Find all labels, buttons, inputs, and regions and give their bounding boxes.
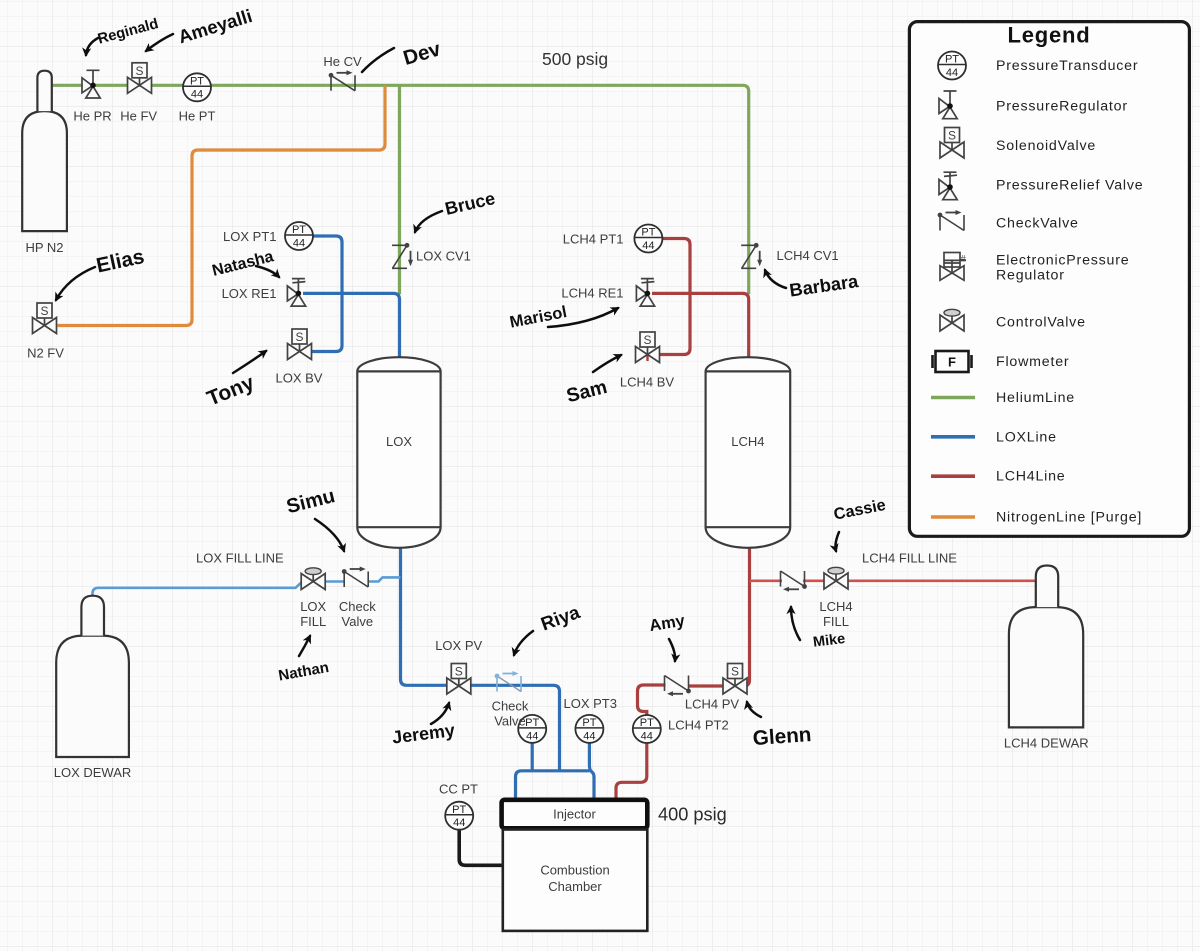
- svg-text:LOX FILL LINE: LOX FILL LINE: [196, 551, 284, 566]
- svg-text:PT: PT: [641, 227, 655, 239]
- svg-text:LCH4 RE1: LCH4 RE1: [561, 286, 623, 301]
- control valve LCH4 CV1 (vertical check): [741, 243, 762, 268]
- pressure transducer LOX PT1: [285, 222, 313, 250]
- svg-text:500 psig: 500 psig: [542, 49, 608, 69]
- svg-text:He FV: He FV: [120, 108, 157, 123]
- wire: LOX manifold horizontal with left leg into injector (blue): [516, 771, 590, 800]
- svg-text:Chamber: Chamber: [548, 879, 602, 894]
- legend nitrogen line sample: [931, 515, 975, 519]
- annotation arrow to LCH4 fill check valve: [791, 607, 800, 640]
- svg-text:LCH4Line: LCH4Line: [996, 469, 1066, 485]
- svg-text:LOX: LOX: [300, 599, 326, 614]
- annotation arrow to He PR: [86, 38, 98, 55]
- svg-text:PressureRelief Valve: PressureRelief Valve: [996, 178, 1143, 194]
- solenoid valve He FV: [128, 63, 152, 94]
- annotation arrow to He CV: [362, 48, 394, 72]
- check valve He CV: [329, 70, 355, 91]
- svg-text:ElectronicPressure: ElectronicPressure: [996, 253, 1129, 269]
- wire: LCH4 fill junction to check valve (bright red): [750, 579, 783, 582]
- svg-text:NitrogenLine [Purge]: NitrogenLine [Purge]: [996, 510, 1142, 526]
- svg-text:44: 44: [641, 730, 653, 742]
- wire: LOX PV through check valve to down corner (blue): [471, 685, 560, 771]
- legend pressure regulator symbol: [939, 91, 957, 119]
- svg-text:He CV: He CV: [323, 54, 362, 69]
- wire: LOX tank outlet down to LOX PV (blue): [401, 547, 448, 685]
- svg-text:S: S: [731, 665, 739, 679]
- svg-text:PressureTransducer: PressureTransducer: [996, 58, 1138, 74]
- annotation arrow to LOX main check valve: [514, 631, 533, 655]
- wire: LOX fill check valve to main line (light blue): [368, 577, 401, 581]
- legend LOX line sample: [931, 435, 975, 439]
- svg-text:S: S: [295, 330, 303, 344]
- svg-text:HeliumLine: HeliumLine: [996, 390, 1075, 406]
- wire: LOX RE1 line and tank inlet drop (blue): [303, 293, 400, 358]
- wire: LOX PT1 stub, sense vertical and LOX BV stub (blue): [310, 236, 342, 352]
- wire: LOX fill valve to check valve (light blue): [325, 580, 345, 583]
- LCH4 DEWAR bottle: [1009, 566, 1083, 728]
- LOX tank: [357, 357, 440, 548]
- annotation arrow to LOX RE1: [256, 266, 279, 277]
- annotation arrow to LOX PV: [431, 703, 449, 724]
- svg-text:LOX CV1: LOX CV1: [416, 249, 471, 264]
- svg-text:S: S: [643, 333, 651, 347]
- pressure transducer He PT: [183, 73, 211, 101]
- svg-text:Check: Check: [492, 698, 529, 713]
- svg-text:LCH4 PV: LCH4 PV: [685, 696, 740, 711]
- wire: nitrogen purge line (orange) from helium line to N2 FV: [58, 85, 386, 325]
- control valve LOX CV1 (vertical check): [392, 243, 413, 268]
- svg-text:44: 44: [453, 817, 465, 829]
- legend check valve symbol: [938, 210, 964, 231]
- annotation arrow to LCH4 PV: [747, 702, 761, 717]
- HP N2 bottle: [22, 71, 67, 231]
- svg-text:Glenn: Glenn: [752, 723, 812, 750]
- svg-text:44: 44: [946, 67, 958, 79]
- svg-text:Legend: Legend: [1007, 23, 1090, 48]
- check valve (LOX main, light blue): [495, 671, 521, 692]
- svg-text:S: S: [948, 129, 956, 143]
- svg-text:PT: PT: [452, 804, 466, 816]
- svg-text:Combustion: Combustion: [540, 863, 609, 878]
- annotation arrow to LCH4 BV: [593, 355, 621, 372]
- svg-text:S: S: [40, 304, 48, 318]
- legend flowmeter symbol: [933, 351, 972, 372]
- svg-text:LOX PT3: LOX PT3: [564, 696, 617, 711]
- annotation arrow to N2 FV: [56, 267, 95, 300]
- svg-text:He PR: He PR: [73, 108, 111, 123]
- svg-text:400 psig: 400 psig: [658, 805, 727, 825]
- svg-text:SolenoidValve: SolenoidValve: [996, 138, 1096, 154]
- annotation arrow to LOX BV: [233, 351, 266, 373]
- wire: LCH4 fill line to dewar (bright red): [847, 579, 1039, 582]
- svg-text:N2 FV: N2 FV: [27, 346, 64, 361]
- wire: LCH4 RE1 line and tank inlet drop (red): [652, 293, 749, 358]
- LCH4 tank: [706, 357, 791, 548]
- pressure relief valve LCH4 RE1: [636, 279, 654, 307]
- check valve (LCH4 fill, reversed): [781, 571, 807, 592]
- check valve (Amy, reversed): [665, 676, 691, 697]
- svg-text:Valve: Valve: [494, 714, 526, 729]
- wire: LCH4 PV to Amy check valve (red): [689, 684, 724, 687]
- svg-text:Flowmeter: Flowmeter: [996, 354, 1069, 370]
- legend pressure transducer symbol: [938, 52, 966, 80]
- annotation arrow to LCH4 RE1: [548, 308, 618, 327]
- svg-text:44: 44: [583, 730, 595, 742]
- legend helium line sample: [931, 396, 975, 400]
- svg-text:FILL: FILL: [300, 614, 326, 629]
- svg-text:44: 44: [642, 240, 654, 252]
- wire: check valve jog down to LCH4 PT2 (red): [638, 685, 666, 716]
- svg-text:F: F: [948, 354, 956, 369]
- svg-text:LOXLine: LOXLine: [996, 429, 1057, 445]
- legend pressure relief valve symbol: [939, 172, 957, 200]
- svg-text:CC PT: CC PT: [439, 782, 478, 797]
- legend control valve symbol: [940, 309, 964, 331]
- svg-text:Regulator: Regulator: [996, 268, 1065, 284]
- wire: LOX PT stub left (blue): [531, 742, 534, 771]
- svg-text:LCH4 PT1: LCH4 PT1: [563, 232, 624, 247]
- svg-text:S: S: [455, 665, 463, 679]
- annotation arrow to LOX fill check valve: [315, 519, 344, 551]
- annotation arrow to Amy check valve: [669, 639, 675, 661]
- svg-text:PT: PT: [292, 224, 306, 236]
- svg-text:LCH4 PT2: LCH4 PT2: [668, 718, 729, 733]
- svg-text:LCH4 DEWAR: LCH4 DEWAR: [1004, 735, 1089, 750]
- svg-text:LOX: LOX: [386, 434, 412, 449]
- solenoid valve LOX BV: [288, 329, 312, 360]
- svg-text:44: 44: [526, 730, 538, 742]
- control valve LOX FILL: [301, 568, 325, 590]
- svg-text:S: S: [135, 64, 143, 78]
- svg-text:LOX DEWAR: LOX DEWAR: [54, 765, 132, 780]
- svg-text:PT: PT: [190, 76, 204, 88]
- svg-text:LOX RE1: LOX RE1: [222, 286, 277, 301]
- svg-text:PT: PT: [945, 54, 959, 66]
- svg-text:PT: PT: [582, 717, 596, 729]
- svg-text:Check: Check: [339, 599, 376, 614]
- wire: LCH4 BV bottom tick (red): [646, 355, 648, 361]
- svg-text:PT: PT: [525, 717, 539, 729]
- solenoid valve LCH4 PV: [723, 664, 747, 695]
- annotation arrow to He FV: [146, 34, 173, 51]
- solenoid valve N2 FV: [33, 303, 57, 334]
- solenoid valve LOX PV: [447, 664, 471, 695]
- injector box: [502, 800, 648, 829]
- svg-text:He PT: He PT: [179, 108, 216, 123]
- svg-text:ControlValve: ControlValve: [996, 315, 1086, 331]
- svg-text:44: 44: [191, 89, 203, 101]
- svg-text:FILL: FILL: [823, 614, 849, 629]
- check valve (LOX fill): [342, 567, 368, 588]
- svg-text:#: #: [961, 254, 967, 265]
- wire: LOX PT3 stub and right leg into injector (blue): [589, 742, 594, 800]
- wire: helium branch down to LOX CV1 (green vertical): [398, 85, 401, 294]
- svg-text:LCH4 FILL LINE: LCH4 FILL LINE: [862, 551, 957, 566]
- combustion chamber box: [503, 830, 648, 931]
- svg-text:PT: PT: [640, 717, 654, 729]
- LOX DEWAR bottle: [56, 596, 129, 757]
- wire: helium main line (green) from HP N2 to LCH4 CV1 drop: [52, 85, 749, 294]
- wire: CC PT sense line (black): [459, 828, 503, 865]
- pressure transducer LOX PT (manifold left): [518, 715, 546, 743]
- control valve LCH4 FILL: [824, 567, 848, 589]
- pressure transducer LOX PT3: [575, 715, 603, 743]
- svg-text:Valve: Valve: [342, 614, 374, 629]
- legend box: [909, 22, 1189, 537]
- annotation arrow to LOX CV1: [415, 211, 442, 232]
- svg-text:PressureRegulator: PressureRegulator: [996, 99, 1128, 115]
- svg-text:HP N2: HP N2: [25, 240, 63, 255]
- pressure relief valve LOX RE1: [287, 279, 305, 307]
- wire: LCH4 PT1 stub, sense vertical and LCH4 BV stub (red): [658, 239, 690, 355]
- wire: LCH4 PT2 down and into injector (red): [616, 742, 647, 800]
- svg-text:44: 44: [293, 237, 305, 249]
- pressure transducer LCH4 PT2: [633, 715, 661, 743]
- legend solenoid valve symbol: [940, 128, 964, 159]
- svg-text:LCH4: LCH4: [819, 599, 852, 614]
- pressure transducer CC PT: [445, 802, 473, 830]
- wire: LCH4 tank outlet down to LCH4 PV corner (red): [744, 547, 750, 686]
- svg-text:LOX BV: LOX BV: [276, 371, 323, 386]
- annotation arrow to LOX FILL valve: [299, 636, 310, 656]
- solenoid valve LCH4 BV: [636, 332, 660, 363]
- legend electronic pressure regulator symbol: [940, 253, 967, 281]
- svg-text:LOX PV: LOX PV: [435, 638, 482, 653]
- svg-text:LCH4: LCH4: [731, 434, 764, 449]
- pressure transducer LCH4 PT1: [634, 225, 662, 253]
- svg-text:LOX PT1: LOX PT1: [223, 229, 276, 244]
- svg-text:CheckValve: CheckValve: [996, 216, 1079, 232]
- wire: LOX fill line from dewar (light blue): [93, 582, 302, 597]
- pressure regulator He PR: [82, 70, 100, 98]
- legend LCH4 line sample: [931, 474, 975, 478]
- wire: LCH4 fill check valve to fill valve (bright red): [803, 579, 825, 582]
- annotation arrow to LCH4 FILL valve: [835, 532, 839, 551]
- annotation arrow to LCH4 CV1: [765, 270, 786, 288]
- svg-text:LCH4 CV1: LCH4 CV1: [777, 248, 839, 263]
- svg-text:Injector: Injector: [553, 807, 596, 822]
- svg-text:LCH4 BV: LCH4 BV: [620, 375, 675, 390]
